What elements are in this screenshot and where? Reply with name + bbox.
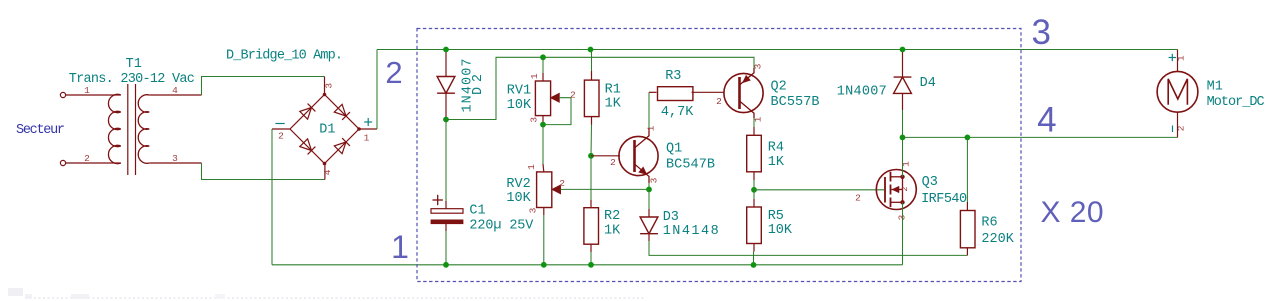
svg-text:X 20: X 20 xyxy=(1041,196,1104,229)
junction D2 cathode node xyxy=(443,117,449,123)
svg-text:3: 3 xyxy=(753,63,764,69)
junction net4 at Q3 drain xyxy=(900,135,906,141)
svg-text:M1: M1 xyxy=(1207,80,1223,95)
diode bridge D1 diode top-left xyxy=(300,108,312,120)
wire motor bottom pin xyxy=(1177,112,1179,137)
potentiometer RV2 xyxy=(537,172,552,208)
wire Q3 source to bottom rail xyxy=(902,202,904,264)
wire T1 pin3 to bridge pin 4 xyxy=(149,162,201,164)
wire Q1 emitter to D3 xyxy=(648,189,650,209)
diode bridge D1 pin 1 stub xyxy=(359,128,377,130)
wire RV1 bottom pin xyxy=(542,116,544,125)
transistor Q2 base bar xyxy=(738,77,741,109)
wire net 4 horizontal xyxy=(903,136,1178,138)
motor M1 minus sign xyxy=(1172,126,1174,133)
mosfet Q3 drain link xyxy=(891,176,903,178)
junction top rail at R1 xyxy=(588,47,594,53)
svg-text:2: 2 xyxy=(559,178,565,189)
wire gate node to Q3 xyxy=(754,189,884,191)
mosfet Q3 substrate bar xyxy=(902,177,904,203)
transformer T1 secondary winding xyxy=(138,95,149,164)
motor M1 xyxy=(1157,71,1198,112)
svg-text:Q2: Q2 xyxy=(771,80,787,95)
svg-text:2: 2 xyxy=(716,96,722,107)
svg-text:3: 3 xyxy=(172,153,178,164)
junction bottom rail at R5 xyxy=(751,262,757,268)
svg-text:3: 3 xyxy=(1031,13,1050,52)
wire RV2 bottom pin xyxy=(543,208,545,216)
wire top rail xyxy=(377,49,1178,51)
svg-text:3: 3 xyxy=(529,117,540,123)
wire R5 bottom pin xyxy=(753,244,755,252)
resistor R3 xyxy=(658,87,693,101)
potentiometer RV2 wiper arrow xyxy=(552,185,560,194)
transistor Q2 emitter arrow xyxy=(743,75,751,82)
junction RV1 bottom node xyxy=(540,122,546,128)
wire net Secteur neutral to T1 pin 2 xyxy=(66,162,121,164)
svg-text:2: 2 xyxy=(570,90,576,101)
svg-text:Secteur: Secteur xyxy=(16,123,65,138)
transistor Q1 emitter arrow xyxy=(639,167,647,175)
wire motor top pin xyxy=(1177,50,1179,72)
wire bottom rail xyxy=(272,264,903,266)
svg-text:2: 2 xyxy=(84,153,90,164)
node Secteur pin circle top xyxy=(60,92,65,97)
svg-text:1N4007: 1N4007 xyxy=(460,59,475,113)
wire RV1 top pin xyxy=(542,57,544,73)
junction bottom rail at RV2 xyxy=(541,262,547,268)
svg-text:220µ 25V: 220µ 25V xyxy=(469,218,534,233)
svg-text:1N4007: 1N4007 xyxy=(837,85,887,100)
svg-text:D3: D3 xyxy=(663,210,679,225)
svg-text:1: 1 xyxy=(364,133,370,144)
wire C1 top lead xyxy=(445,120,447,202)
svg-text:4: 4 xyxy=(1037,101,1056,140)
node Secteur pin circle bottom xyxy=(60,160,65,165)
wire RV2 wiper to Q1 emitter node xyxy=(561,188,650,190)
junction Q1 emitter node xyxy=(646,187,652,193)
wire D2 anode from top rail xyxy=(445,50,447,77)
wire R3 right lead to Q2 base xyxy=(692,91,725,93)
svg-text:1K: 1K xyxy=(605,96,622,111)
wire R4 bottom pin xyxy=(753,172,755,180)
mosfet Q3 body arrow xyxy=(892,189,903,191)
resistor R2 xyxy=(584,208,599,245)
transistor Q2 collector xyxy=(740,101,755,118)
junction net4 at R6 xyxy=(965,135,971,141)
svg-text:4,7K: 4,7K xyxy=(661,105,694,120)
transistor Q1 xyxy=(619,136,658,175)
svg-text:1: 1 xyxy=(1175,55,1186,61)
svg-text:Q3: Q3 xyxy=(922,175,938,190)
motor M1 letter M xyxy=(1168,79,1187,105)
wire T1 pin4 to bridge pin 3 xyxy=(149,94,201,96)
svg-text:D4: D4 xyxy=(920,76,936,91)
wire R1 bottom pin xyxy=(591,117,593,125)
diode bridge D1 diode bottom-left xyxy=(300,139,312,151)
svg-text:R1: R1 xyxy=(605,83,621,98)
transistor Q1 collector xyxy=(635,128,650,148)
svg-text:BC547B: BC547B xyxy=(666,158,715,173)
wire R6 bottom pin xyxy=(966,248,968,256)
wire Q2 collector to R4 xyxy=(753,118,755,127)
svg-text:220K: 220K xyxy=(981,232,1014,247)
svg-text:T1: T1 xyxy=(126,57,142,72)
diode bridge D1 pin 2 stub xyxy=(272,128,290,130)
wire R3 left lead to Q1 collector xyxy=(649,91,657,93)
wire bridge pin2 to bottom rail net 1 xyxy=(271,129,273,265)
svg-text:2: 2 xyxy=(278,130,284,141)
dashed module box xyxy=(417,29,1021,282)
svg-text:3: 3 xyxy=(527,207,538,213)
faint bottom sheet line xyxy=(25,297,645,299)
wire R1 top pin xyxy=(591,50,593,72)
diode D2 xyxy=(437,77,455,94)
junction R1 bottom node xyxy=(588,153,594,159)
svg-text:2: 2 xyxy=(855,193,861,204)
svg-text:10K: 10K xyxy=(507,98,532,113)
wire R2 bottom pin xyxy=(590,244,592,252)
transformer T1 primary winding xyxy=(108,94,120,163)
resistor R5 xyxy=(747,207,762,244)
diode bridge D1 corner dots xyxy=(323,93,327,97)
wire RV2 top pin xyxy=(542,125,544,164)
svg-text:10K: 10K xyxy=(768,223,793,238)
svg-text:1K: 1K xyxy=(768,155,785,170)
transistor Q1 emitter xyxy=(635,164,650,183)
wire Q1 base from R1 node xyxy=(591,155,620,157)
svg-text:1: 1 xyxy=(391,229,409,265)
svg-text:BC557B: BC557B xyxy=(771,95,820,110)
transistor Q1 base bar xyxy=(633,140,636,172)
wire D2 cathode to node xyxy=(445,93,447,119)
diode bridge D1 diode top-right xyxy=(334,104,346,116)
svg-text:RV1: RV1 xyxy=(507,84,531,99)
wire D2 cathode to Q2 emitter xyxy=(446,57,754,119)
diode bridge D1 plus pin name xyxy=(364,121,372,123)
svg-text:D1: D1 xyxy=(319,123,335,138)
junction RV1 top tap xyxy=(540,54,546,60)
svg-text:R6: R6 xyxy=(981,216,997,231)
junction bottom rail at R2 xyxy=(588,262,594,268)
wire bridge pin1 to top rail net 2 xyxy=(376,50,378,130)
svg-text:1: 1 xyxy=(526,164,537,170)
capacitor C1 plus sign xyxy=(433,199,443,201)
diode bridge D1 outline xyxy=(290,95,359,164)
svg-text:3: 3 xyxy=(324,83,335,89)
capacitor C1 bottom plate xyxy=(431,220,463,224)
transformer T1 core xyxy=(127,84,129,175)
mosfet Q3 source link xyxy=(891,201,903,203)
svg-text:4: 4 xyxy=(322,169,333,175)
svg-text:R2: R2 xyxy=(604,209,620,224)
diode bridge D1 diode bottom-right xyxy=(334,142,346,154)
motor M1 plus sign xyxy=(1169,57,1176,59)
junction R4 R5 gate node xyxy=(751,187,757,193)
svg-text:C1: C1 xyxy=(469,204,485,219)
wire D3 cathode to feedback wire xyxy=(648,234,650,241)
wire D4 anode from top rail xyxy=(902,50,904,78)
svg-text:Trans. 230-12 Vac: Trans. 230-12 Vac xyxy=(69,72,195,87)
svg-text:10K: 10K xyxy=(506,191,531,206)
mosfet Q3 channel segments xyxy=(890,172,892,182)
diode D4 xyxy=(894,77,912,93)
transistor Q2 xyxy=(724,73,763,112)
wire Q3 drain to net 4 xyxy=(902,137,904,176)
svg-text:3: 3 xyxy=(649,177,660,183)
wire RV1 wiper loop xyxy=(543,98,571,125)
resistor R4 xyxy=(747,135,762,172)
svg-text:1K: 1K xyxy=(604,224,621,239)
junction top rail at D2 xyxy=(443,47,449,53)
junction bottom rail at C1 xyxy=(443,262,449,268)
mosfet Q3 xyxy=(876,170,916,210)
diode bridge D1 pin 3 stub xyxy=(324,77,326,95)
svg-text:Q1: Q1 xyxy=(666,142,682,157)
svg-text:2: 2 xyxy=(385,55,402,90)
diode D3 xyxy=(640,217,658,234)
svg-text:2: 2 xyxy=(900,186,910,191)
diode bridge D1 minus pin name xyxy=(275,123,284,125)
potentiometer RV1 xyxy=(535,81,550,116)
svg-text:RV2: RV2 xyxy=(506,177,530,192)
resistor R1 xyxy=(584,80,599,117)
wire R2 top pin xyxy=(590,156,592,200)
svg-text:IRF540: IRF540 xyxy=(921,192,967,207)
potentiometer RV1 wiper arrow xyxy=(551,93,559,102)
svg-text:2: 2 xyxy=(610,157,616,168)
wire D4 cathode to net 4 xyxy=(902,93,904,110)
svg-text:R3: R3 xyxy=(665,69,681,84)
svg-text:D_Bridge_10 Amp.: D_Bridge_10 Amp. xyxy=(226,49,343,64)
capacitor C1 top plate xyxy=(431,209,463,214)
svg-text:1: 1 xyxy=(646,125,657,131)
diode bridge D1 pin 4 stub xyxy=(324,164,326,180)
svg-text:1: 1 xyxy=(529,73,540,79)
junction top rail at D4 xyxy=(900,47,906,53)
svg-text:R4: R4 xyxy=(768,140,784,155)
wire C1 bottom lead xyxy=(445,224,447,231)
svg-text:R5: R5 xyxy=(768,209,784,224)
svg-text:Motor_DC: Motor_DC xyxy=(1207,95,1265,110)
wire R5 top pin xyxy=(753,190,755,199)
mosfet Q3 gate bar xyxy=(884,177,886,203)
resistor R6 xyxy=(960,211,975,248)
transistor Q2 emitter xyxy=(740,68,755,85)
faint bottom-left marks xyxy=(8,288,23,296)
wire R6 top pin xyxy=(966,137,968,202)
wire net Secteur phase to T1 pin 1 xyxy=(66,94,121,96)
